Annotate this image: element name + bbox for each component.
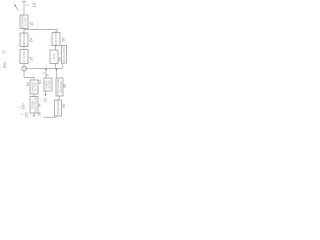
svg-text:OSCILLATOR: OSCILLATOR — [63, 46, 66, 62]
wire bottom leader to BR3 corner — [44, 116, 57, 117]
box BR2 VCO — [50, 50, 58, 64]
svg-text:7: 7 — [43, 72, 47, 74]
svg-text:FILTER: FILTER — [24, 17, 27, 26]
box BRX oscillator — [61, 45, 66, 63]
svg-text:PROCESSOR: PROCESSOR — [57, 100, 60, 116]
wire BR2 down to LO line — [55, 64, 57, 69]
wire B1 to B2 — [23, 29, 25, 34]
label numeral dash top — [25, 4, 28, 6]
wire BR1 to BR2 — [55, 46, 57, 51]
svg-text:100: 100 — [22, 104, 26, 110]
svg-text:IF FILTER: IF FILTER — [23, 51, 26, 63]
svg-text:VCO: VCO — [53, 54, 56, 59]
box BR1 synthesizer — [52, 33, 60, 46]
wire BRb to BR3 — [58, 96, 60, 100]
wire input terminal tick — [22, 0, 26, 2]
box BL demodulator — [44, 78, 52, 91]
wire LO branch into BRb — [56, 71, 58, 78]
node arrowhead branch x56 — [55, 69, 57, 72]
box B2 amplifier — [20, 33, 28, 47]
wire BRX down to LO line — [62, 63, 64, 68]
node arrowhead B5 output — [33, 115, 35, 117]
box BRb decoder — [56, 78, 63, 96]
wire branch to BR1 horizontal — [24, 29, 57, 32]
svg-text:82: 82 — [37, 79, 42, 84]
svg-text:98: 98 — [38, 112, 42, 116]
wire LO branch into BL — [45, 71, 47, 78]
svg-text:FIG.: FIG. — [3, 61, 7, 68]
svg-text:DEMOD: DEMOD — [48, 80, 51, 90]
box B4 channel filter — [30, 80, 38, 94]
svg-text:10: 10 — [31, 2, 36, 7]
svg-text:92: 92 — [43, 98, 47, 102]
svg-text:102: 102 — [24, 112, 28, 118]
svg-text:AMPLIFIER: AMPLIFIER — [23, 33, 26, 46]
wire RF input arrow diagonal — [16, 6, 19, 10]
mixer U1 — [22, 66, 27, 71]
svg-text:16: 16 — [28, 56, 33, 61]
svg-text:96: 96 — [62, 104, 66, 108]
node RF arrowhead — [14, 4, 16, 8]
wire B3 to mixer — [23, 64, 25, 67]
wire B2 to B3 — [23, 47, 25, 50]
node arrowhead BL output — [44, 94, 46, 97]
svg-text:FREQ SYNTH: FREQ SYNTH — [55, 31, 58, 47]
node arrowhead branch x46 — [45, 69, 47, 72]
wire BL output stub — [45, 91, 47, 94]
wire antenna lead-in vertical — [23, 1, 25, 15]
box BR3 processor — [54, 100, 61, 116]
svg-text:6: 6 — [46, 74, 50, 76]
svg-text:94: 94 — [37, 103, 41, 107]
wire B4 to B5 — [33, 94, 35, 97]
box B3 IF filter — [20, 50, 28, 64]
svg-text:58: 58 — [58, 57, 62, 61]
wire mixer output down and right to B4 — [24, 71, 34, 80]
wire B5 output stub — [33, 113, 35, 117]
svg-text:12: 12 — [29, 21, 34, 26]
wire LO horizontal to mixer — [27, 67, 63, 69]
svg-text:56: 56 — [60, 37, 65, 42]
svg-text:11: 11 — [1, 50, 5, 54]
box B5 baseband processor — [30, 97, 38, 114]
box B1 bandpass filter — [20, 15, 28, 29]
svg-text:80: 80 — [26, 82, 30, 86]
svg-text:14: 14 — [29, 37, 34, 42]
svg-text:88: 88 — [63, 84, 67, 88]
